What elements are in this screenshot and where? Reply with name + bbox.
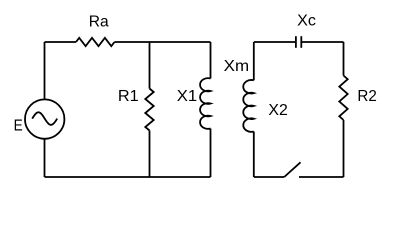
svg-text:R2: R2 [357, 88, 376, 105]
wire: right-loop bottom right segment [299, 176, 344, 178]
label R2 [357, 88, 376, 105]
inductor Xm/X2 [243, 80, 254, 132]
wire: left-loop bottom [45, 176, 211, 178]
resistor R2 [339, 76, 347, 121]
wire: right-loop bottom left segment [254, 176, 284, 178]
wire: X1 branch top [210, 42, 212, 79]
wire: right-loop top, right segment [301, 41, 343, 43]
wire: R1 branch bottom [149, 131, 151, 178]
svg-text:X2: X2 [268, 102, 287, 119]
wire: left-loop left side lower [44, 139, 46, 177]
wire: left-loop top, right segment [115, 41, 211, 43]
wire: right-loop top, left segment [254, 41, 296, 43]
resistor R1 [145, 89, 153, 131]
capacitor Xc [296, 36, 301, 48]
source E (AC) [25, 99, 64, 138]
label Xm [224, 58, 249, 75]
svg-text:Xm: Xm [224, 58, 249, 75]
wire: R1 branch top [149, 42, 151, 89]
svg-text:E: E [14, 118, 23, 135]
label R1 [118, 88, 139, 105]
label Ra [89, 14, 109, 31]
svg-text:Ra: Ra [89, 14, 109, 31]
wire: right-loop right side lower [343, 120, 345, 177]
wire: left-loop left side upper [44, 42, 46, 99]
switch blade (open) [284, 162, 300, 177]
inductor X1 [200, 78, 210, 129]
wire: right-loop right side upper [343, 42, 345, 76]
svg-text:R1: R1 [118, 88, 139, 105]
label E [14, 118, 23, 135]
wire: right-loop left side lower [253, 132, 255, 178]
svg-text:Xc: Xc [297, 13, 316, 30]
svg-text:X1: X1 [177, 88, 197, 105]
wire: right-loop left side upper [253, 42, 255, 80]
label X1 [177, 88, 197, 105]
wire: left-loop top, left segment [45, 41, 77, 43]
resistor Ra [76, 38, 115, 46]
wire: X1 branch bottom [210, 129, 212, 178]
label X2 [268, 102, 287, 119]
label Xc [297, 13, 316, 30]
